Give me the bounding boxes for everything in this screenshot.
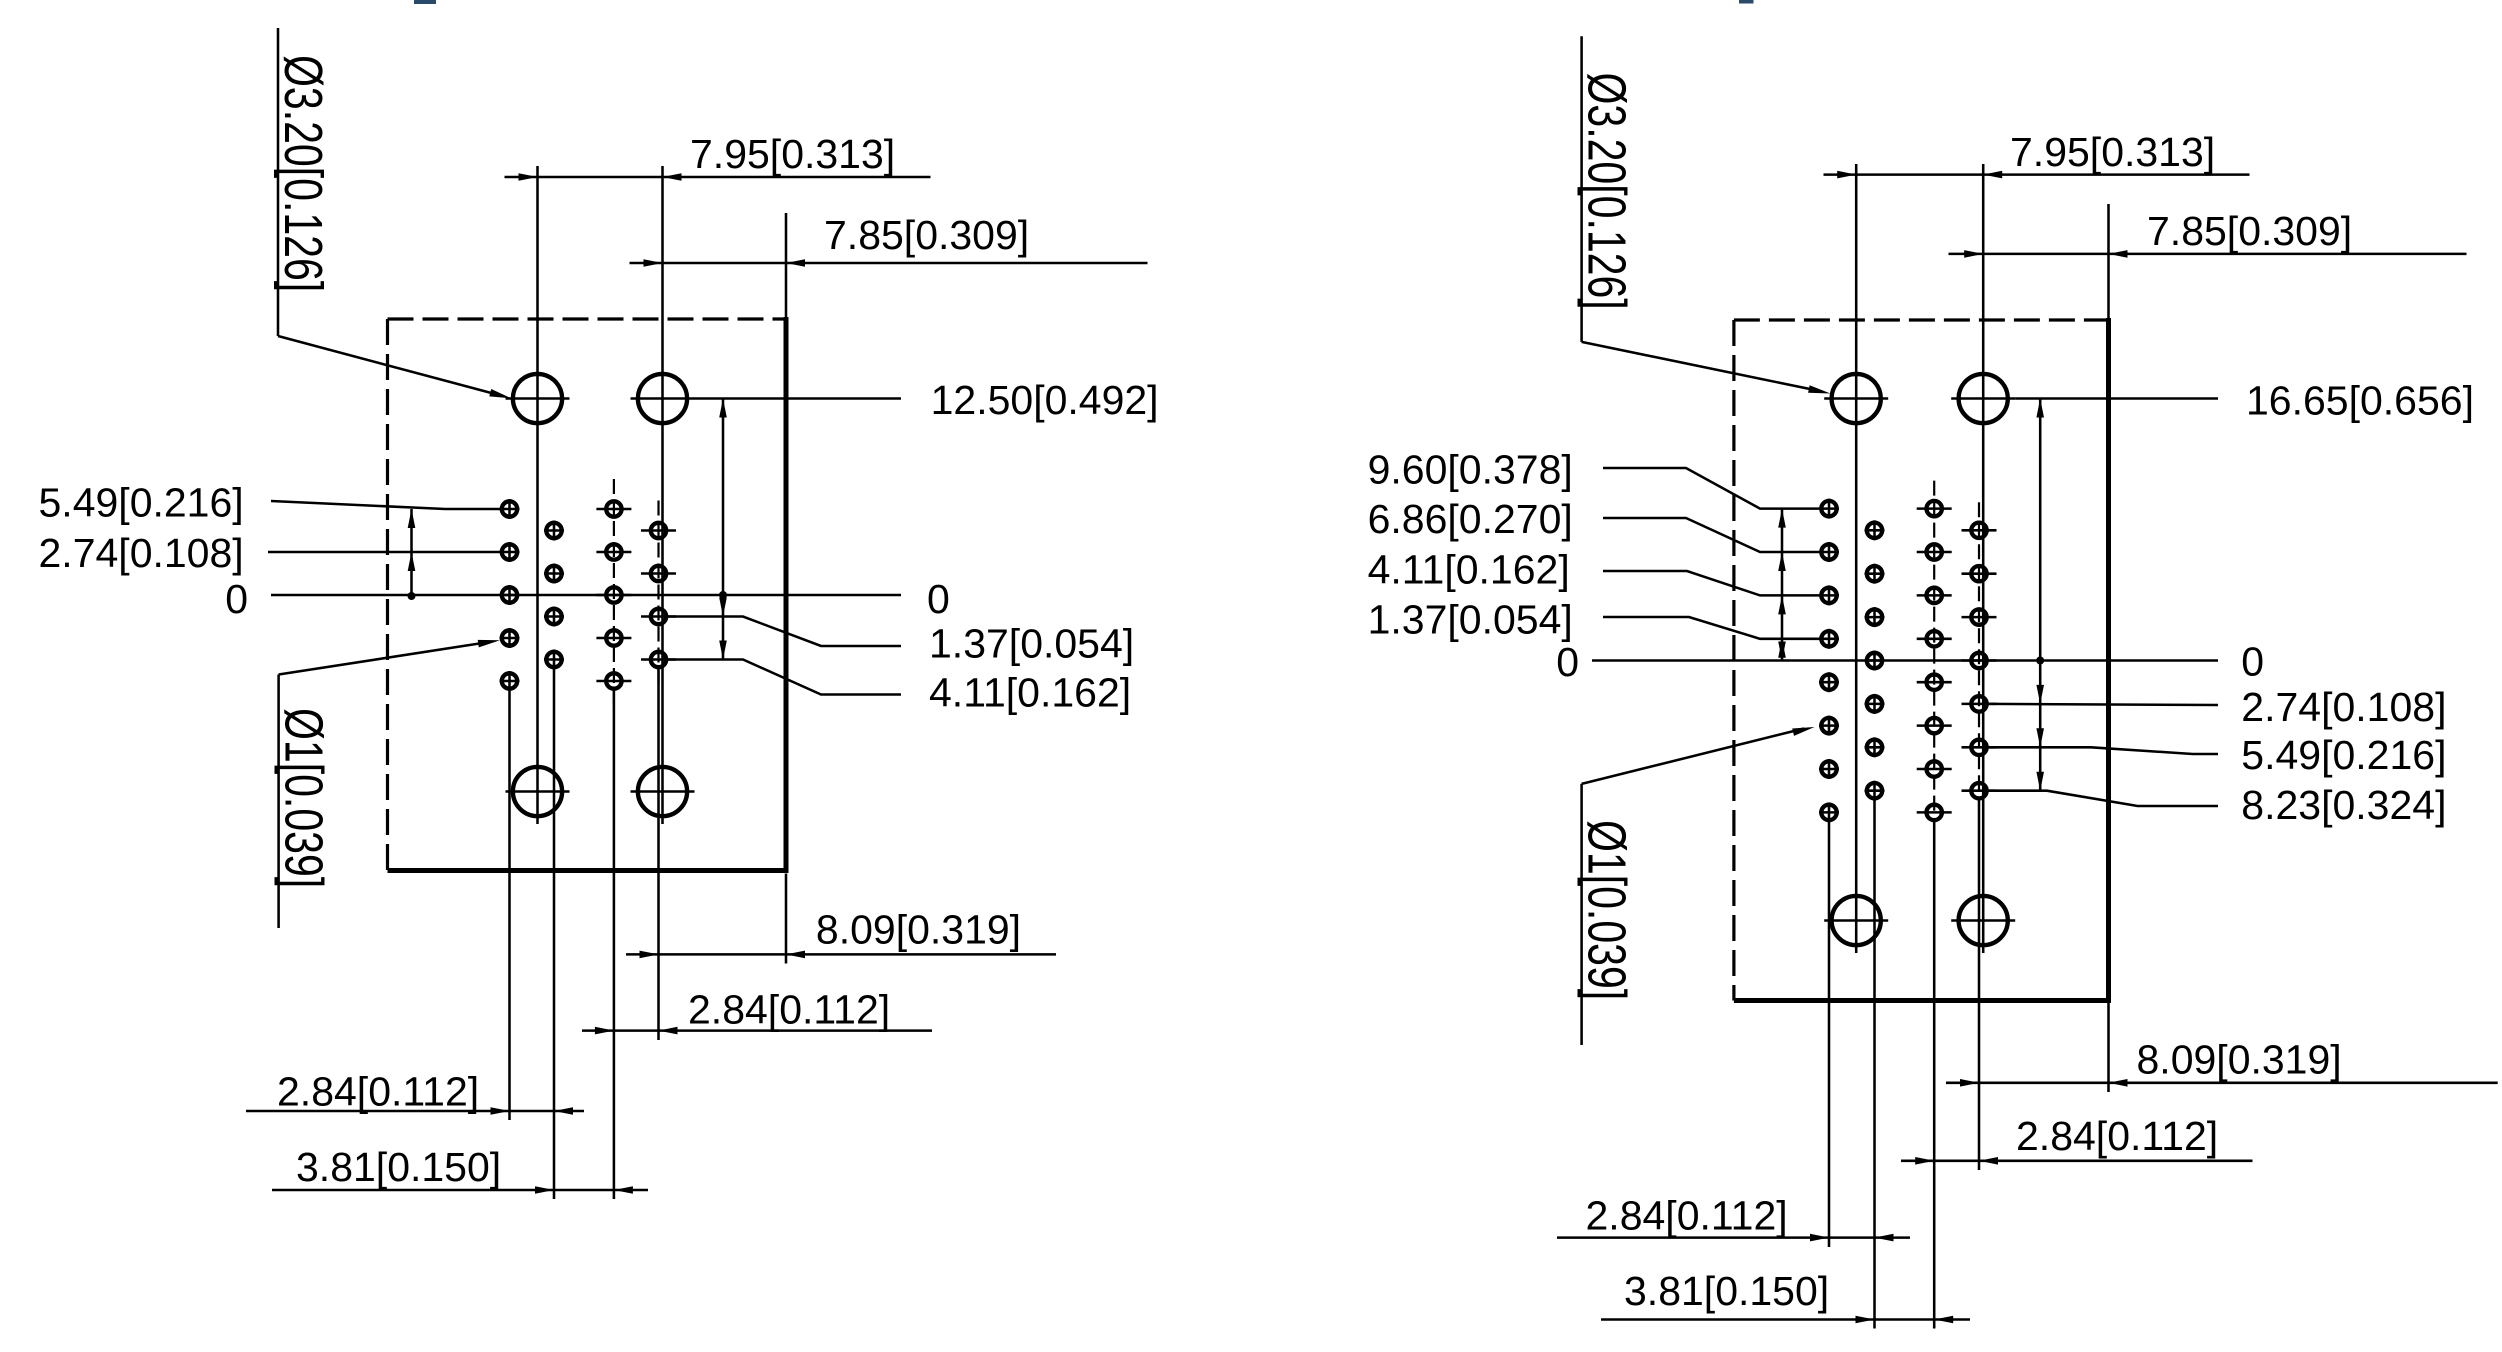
left dimension 8.09 line — [626, 953, 1056, 956]
right pin hole col4 row 2.74 — [1962, 609, 1997, 624]
svg-text:7.85[0.309]: 7.85[0.309] — [824, 212, 1029, 258]
right Ø3.20 callout vertical line — [1580, 36, 1583, 342]
left dimension 3.81 arrow right — [614, 1186, 633, 1194]
right dimension 5.49 leader — [1988, 747, 2218, 754]
right pin hole col1 row 1.37 — [1819, 629, 1839, 649]
svg-text:2.84[0.112]: 2.84[0.112] — [277, 1069, 479, 1115]
left mounting hole H3 (Ø3.20) bottom-left — [506, 767, 570, 816]
right footprint: body outline left edge (hidden/dashed) — [1732, 320, 1735, 1001]
right pin hole col4 row -2.74 — [1962, 696, 1997, 711]
right dimension 2.84 (col1-col2) arrow right — [1875, 1234, 1894, 1242]
left extension line body right edge bottom — [785, 874, 788, 964]
left pin hole col2 row 1.37 — [544, 564, 564, 584]
svg-text:2.74[0.108]: 2.74[0.108] — [2241, 684, 2446, 730]
right dimension 2.84 (col3-col4) arrow right — [1979, 1157, 1998, 1165]
right dimension 7.95 arrow left — [1837, 171, 1856, 179]
left pin hole col2 row 4.11 — [544, 521, 564, 541]
svg-text:9.60[0.378]: 9.60[0.378] — [1368, 447, 1573, 493]
right pin column 3 centerline — [1933, 481, 1935, 815]
left dimension 5.49 leader — [271, 501, 500, 509]
right vertical dimension origin dot at 0 — [2036, 657, 2044, 665]
right Ø3.20 callout arrow — [1808, 385, 1830, 393]
left Ø3.20 callout vertical line — [277, 28, 280, 336]
left vertical dim arrow up at 5.49 — [408, 509, 416, 528]
right pin hole col4 row 0 — [1962, 653, 1997, 668]
left vertical dimension arrow down at -4.11 — [719, 641, 727, 660]
right pin hole col3 row 9.60 — [1917, 501, 1952, 516]
right centerline / extension line through mounting holes col A — [1855, 164, 1858, 953]
svg-text:7.85[0.309]: 7.85[0.309] — [2147, 208, 2352, 254]
right mounting hole H2 (Ø3.20) top-right — [1951, 374, 2015, 423]
svg-text:0: 0 — [1556, 639, 1579, 685]
right footprint: body outline right edge — [2106, 318, 2111, 1001]
left dimension 7.85 arrow right — [786, 259, 805, 267]
right dimension 4.11 leader — [1603, 571, 1819, 595]
right pin hole col4 row -5.49 — [1962, 740, 1997, 755]
svg-text:Ø1[0.039]: Ø1[0.039] — [1576, 820, 1636, 1000]
left centerline / extension line through mounting holes col A — [536, 166, 539, 824]
svg-text:3.81[0.150]: 3.81[0.150] — [1624, 1268, 1829, 1314]
svg-text:16.65[0.656]: 16.65[0.656] — [2246, 378, 2474, 424]
left dimension 3.81 line — [272, 1189, 648, 1192]
right mounting hole H1 (Ø3.20) top-left — [1824, 374, 1888, 423]
left pin hole col3 row 0 — [596, 587, 631, 602]
right vertical dimension arrow down at -2.74 — [2036, 685, 2044, 704]
left vertical dim arrow up at 2.74 — [408, 552, 416, 571]
UI artifact blue tab fragment right — [1739, 0, 1754, 4]
right vertical dimension line 16.65/2.74/5.49/8.23 — [2039, 399, 2042, 791]
right pin hole col2 row 5.49 — [1865, 564, 1885, 584]
svg-text:4.11[0.162]: 4.11[0.162] — [1368, 547, 1570, 593]
right pin hole col2 row -2.74 — [1865, 694, 1885, 714]
svg-text:8.09[0.319]: 8.09[0.319] — [2137, 1037, 2342, 1083]
right extension line col4 — [1978, 800, 1981, 1170]
left pin hole col3 row 5.49 — [596, 501, 631, 516]
svg-text:1.37[0.054]: 1.37[0.054] — [1368, 597, 1573, 643]
right dimension 2.74 leader — [1988, 704, 2218, 705]
left vertical dimension line 12.50/1.37/4.11 — [722, 399, 725, 660]
left vertical dimension arrow up at hole row — [719, 399, 727, 418]
right dimension 3.81 arrow left — [1856, 1316, 1875, 1324]
svg-text:0: 0 — [927, 576, 950, 622]
right extension line col3 — [1933, 822, 1936, 1329]
left pin hole col4 row -1.37 — [641, 609, 676, 624]
left centerline / extension line through mounting holes col B — [661, 166, 664, 824]
right vertical dim arrow up at 6.86 — [1778, 552, 1786, 571]
right dimension 8.09 line — [1946, 1082, 2498, 1085]
left dimension 2.84 (col3-col4) arrow left — [595, 1027, 614, 1035]
left Ø1 callout leader — [279, 642, 489, 675]
svg-text:2.84[0.112]: 2.84[0.112] — [1586, 1193, 1788, 1239]
right dimension 2.84 (col3-col4) arrow left — [1915, 1157, 1934, 1165]
right dimension 7.85 arrow right — [2109, 250, 2128, 258]
left extension line col1 — [508, 691, 511, 1120]
left footprint: body outline left edge (hidden/dashed) — [386, 319, 389, 871]
right pin hole col1 row 4.11 — [1819, 585, 1839, 605]
right pin hole col2 row 8.23 — [1865, 520, 1885, 540]
left footprint: body outline bottom edge — [388, 868, 789, 873]
right datum 0 line — [1592, 659, 2218, 662]
right pin column 4 centerline — [1978, 502, 1980, 792]
left pin hole col1 row 2.74 — [500, 542, 520, 562]
svg-text:0: 0 — [225, 576, 248, 622]
left footprint: body outline top edge (hidden/dashed) — [388, 317, 787, 320]
right dimension 7.85 extension line at body right edge — [2107, 204, 2110, 320]
right pin hole col3 row 4.11 — [1917, 588, 1952, 603]
left vertical dimension origin dot at 0 — [719, 591, 727, 599]
left dimension 12.50 leader line — [695, 397, 902, 400]
right dimension 8.23 leader — [1988, 791, 2218, 806]
left pin column 4 centerline — [657, 501, 659, 690]
svg-text:7.95[0.313]: 7.95[0.313] — [690, 131, 895, 177]
svg-text:5.49[0.216]: 5.49[0.216] — [2241, 732, 2446, 778]
right footprint: body outline bottom edge — [1734, 998, 2111, 1003]
right dimension 1.37 leader — [1603, 617, 1819, 639]
left pin hole col2 row -4.11 — [544, 650, 564, 670]
right pin hole col2 row 0 — [1865, 651, 1885, 671]
left pin hole col2 row -1.37 — [544, 607, 564, 627]
left dimension 7.95 [0.313] line — [505, 176, 931, 179]
right dimension 7.95 arrow right — [1983, 171, 2002, 179]
svg-text:8.23[0.324]: 8.23[0.324] — [2241, 782, 2446, 828]
right dimension 6.86 leader — [1603, 518, 1819, 552]
left extension line col2 — [553, 669, 556, 1200]
left dimension 7.85 [0.309] line — [630, 262, 1148, 265]
left pin hole col4 row -4.11 — [641, 652, 676, 667]
left mounting hole H1 (Ø3.20) top-left — [506, 374, 570, 423]
left footprint: body outline right edge — [784, 317, 789, 871]
right extension line col2 — [1873, 800, 1876, 1329]
right pin hole col3 row -9.60 — [1917, 805, 1952, 820]
svg-text:0: 0 — [2241, 639, 2264, 685]
svg-text:Ø3.20[0.126]: Ø3.20[0.126] — [273, 55, 333, 292]
right pin hole col3 row -6.86 — [1917, 761, 1952, 776]
right dimension 8.09 arrow right — [2109, 1079, 2128, 1087]
left mounting hole H2 (Ø3.20) top-right — [631, 374, 695, 423]
right pin hole col4 row -8.23 — [1962, 783, 1997, 798]
svg-text:1.37[0.054]: 1.37[0.054] — [929, 620, 1134, 666]
left Ø3.20 callout arrow — [489, 389, 511, 398]
left dimension 8.09 arrow left — [640, 951, 659, 959]
left dimension 1.37 leader — [668, 617, 902, 647]
left pin column 3 centerline — [613, 479, 615, 711]
svg-text:5.49[0.216]: 5.49[0.216] — [39, 480, 244, 526]
right vertical dim arrow up at 4.11 — [1778, 595, 1786, 614]
left pin hole col3 row 2.74 — [596, 544, 631, 559]
left pin hole col3 row -5.49 — [596, 673, 631, 688]
svg-text:6.86[0.270]: 6.86[0.270] — [1368, 496, 1573, 542]
right centerline / extension line through mounting holes col B — [1982, 164, 1985, 953]
svg-text:2.74[0.108]: 2.74[0.108] — [39, 530, 244, 576]
right dimension 9.60 leader — [1603, 468, 1819, 509]
right Ø3.20 callout leader — [1582, 342, 1822, 392]
right pin hole col1 row -1.37 — [1819, 672, 1839, 692]
right vertical dimension arrow down at -5.49 — [2036, 728, 2044, 747]
right Ø1 callout arrow — [1792, 727, 1814, 736]
left extension line col3 — [613, 690, 616, 1199]
svg-text:8.09[0.319]: 8.09[0.319] — [816, 907, 1021, 953]
left pin hole col1 row -5.49 — [500, 671, 520, 691]
right pin hole col3 row -4.11 — [1917, 718, 1952, 733]
right pin hole col4 row 8.23 — [1962, 523, 1997, 538]
right pin hole col2 row -5.49 — [1865, 737, 1885, 757]
left dimension 7.95 arrow left — [519, 173, 538, 181]
right pin hole col3 row 1.37 — [1917, 631, 1952, 646]
right Ø1 callout vertical line — [1580, 784, 1583, 1045]
right pin hole col1 row -6.86 — [1819, 759, 1839, 779]
right pin hole col4 row 5.49 — [1962, 566, 1997, 581]
right pin hole col3 row 6.86 — [1917, 544, 1952, 559]
left Ø3.20 callout leader — [278, 336, 503, 396]
right dimension 2.84 (col1-col2) line — [1557, 1236, 1910, 1239]
left dimension 7.85 arrow left — [644, 259, 663, 267]
svg-text:7.95[0.313]: 7.95[0.313] — [2010, 129, 2215, 175]
left extension line col4 — [657, 669, 660, 1041]
right pin hole col2 row 2.74 — [1865, 607, 1885, 627]
right pin hole col3 row -1.37 — [1917, 675, 1952, 690]
right dimension 8.09 arrow left — [1960, 1079, 1979, 1087]
left Ø1 callout vertical line — [277, 675, 280, 929]
left dimension 7.85 extension line at body right edge — [785, 213, 788, 319]
left dimension 3.81 arrow left — [535, 1186, 554, 1194]
right extension line col1 — [1828, 822, 1831, 1247]
left pin hole col1 row -2.74 — [500, 628, 520, 648]
right dimension 7.85 arrow left — [1964, 250, 1983, 258]
right dimension 2.84 (col1-col2) arrow left — [1810, 1234, 1829, 1242]
right dimension 3.81 arrow right — [1934, 1316, 1953, 1324]
left dimension 2.84 (col1-col2) arrow left — [491, 1107, 510, 1115]
right dimension 16.65 leader line — [2015, 397, 2218, 400]
svg-text:2.84[0.112]: 2.84[0.112] — [688, 987, 890, 1033]
right dimension 7.85 [0.309] line — [1949, 253, 2467, 256]
svg-text:12.50[0.492]: 12.50[0.492] — [931, 377, 1159, 423]
right pin hole col1 row -4.11 — [1819, 716, 1839, 736]
svg-text:3.81[0.150]: 3.81[0.150] — [296, 1144, 501, 1190]
left vertical dim origin dot — [408, 592, 416, 600]
svg-text:Ø3.20[0.126]: Ø3.20[0.126] — [1576, 73, 1636, 310]
svg-text:Ø1[0.039]: Ø1[0.039] — [273, 708, 333, 888]
right pin hole col2 row -8.23 — [1865, 781, 1885, 801]
right dimension 3.81 line — [1601, 1318, 1970, 1321]
right vertical dimension line 9.60/6.86/4.11/1.37 — [1781, 509, 1784, 661]
left dimension 2.84 (col3-col4) line — [582, 1029, 932, 1032]
left pin hole col4 row 1.37 — [641, 566, 676, 581]
left pin hole col1 row 0 — [500, 585, 520, 605]
left vertical dimension arrow down at -1.37 — [719, 598, 727, 617]
right vertical dim arrow up at 9.60 — [1778, 509, 1786, 528]
right footprint: body outline top edge (hidden/dashed) — [1734, 318, 2109, 321]
right extension line body right edge bottom — [2107, 1003, 2110, 1092]
left dimension 2.84 (col1-col2) line — [246, 1110, 584, 1113]
left pin hole col4 row 4.11 — [641, 523, 676, 538]
left Ø1 callout arrow — [478, 640, 500, 648]
right Ø1 callout leader — [1582, 729, 1804, 784]
right vertical dim arrow up at 1.37 — [1778, 639, 1786, 658]
left dimension 2.84 (col1-col2) arrow right — [554, 1107, 573, 1115]
UI artifact blue tab fragment left — [414, 0, 436, 4]
right pin hole col1 row -9.60 — [1819, 802, 1839, 822]
svg-text:2.84[0.112]: 2.84[0.112] — [2016, 1113, 2218, 1159]
left dimension 4.11 leader — [668, 660, 902, 695]
left vertical dimension line 5.49/2.74 — [410, 509, 413, 598]
left pin hole col3 row -2.74 — [596, 630, 631, 645]
right mounting hole H3 (Ø3.20) bottom-left — [1824, 896, 1888, 945]
left dimension 7.95 arrow right — [663, 173, 682, 181]
left datum 0 line — [271, 594, 901, 597]
left dimension 2.84 (col3-col4) arrow right — [659, 1027, 678, 1035]
right pin hole col1 row 9.60 — [1819, 499, 1839, 519]
svg-text:4.11[0.162]: 4.11[0.162] — [929, 669, 1131, 715]
right dimension 2.84 (col3-col4) line — [1901, 1160, 2253, 1163]
right mounting hole H4 (Ø3.20) bottom-right — [1951, 896, 2015, 945]
right vertical dimension arrow up at hole row — [2036, 399, 2044, 418]
left dimension 2.74 leader — [268, 551, 500, 554]
left pin hole col1 row 5.49 — [500, 499, 520, 519]
right pin hole col1 row 6.86 — [1819, 542, 1839, 562]
left dimension 8.09 arrow right — [786, 951, 805, 959]
left mounting hole H4 (Ø3.20) bottom-right — [631, 767, 695, 816]
right vertical dim arrow down at 0 — [1778, 642, 1786, 661]
right vertical dimension arrow down at -8.23 — [2036, 772, 2044, 791]
right dimension 7.95 [0.313] line — [1824, 173, 2250, 176]
